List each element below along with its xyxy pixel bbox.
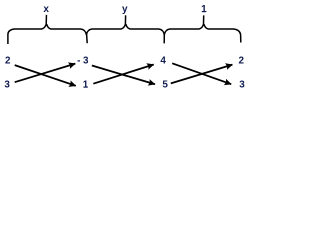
svg-text:2: 2	[5, 55, 11, 66]
arrow 5 to 2	[171, 65, 233, 84]
junction 2 stem	[163, 34, 165, 43]
svg-text:2: 2	[239, 55, 245, 66]
svg-text:3: 3	[83, 55, 89, 66]
brace x (overbrace 1)	[8, 15, 87, 44]
svg-text:1: 1	[83, 80, 89, 91]
arrow 3 to -3	[15, 64, 76, 83]
brace y (overbrace 2)	[86, 15, 164, 35]
arrow -3 to 5	[92, 66, 155, 85]
svg-text:5: 5	[162, 80, 168, 91]
arrow 1 to 4	[93, 65, 153, 84]
brace 1 (overbrace 3)	[164, 15, 241, 42]
junction 1 stem	[86, 34, 89, 43]
svg-text:-: -	[77, 55, 80, 66]
svg-text:x: x	[43, 4, 49, 15]
arrow 2 to 1	[15, 65, 76, 86]
svg-text:3: 3	[4, 80, 10, 91]
svg-text:4: 4	[160, 55, 166, 66]
svg-text:3: 3	[239, 80, 245, 91]
svg-text:y: y	[122, 4, 128, 15]
svg-text:1: 1	[201, 4, 207, 15]
arrow 4 to 3	[172, 63, 231, 84]
